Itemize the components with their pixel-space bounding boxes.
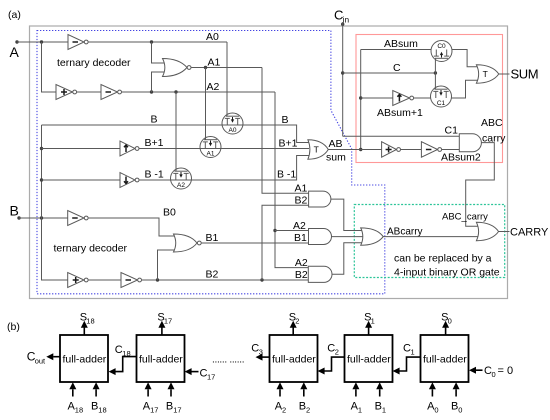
svg-text:B+1: B+1 [145, 137, 164, 149]
wire CARRY output [499, 231, 510, 233]
wire A17 input arrow [147, 389, 149, 396]
wire B2 input arrow [303, 389, 305, 396]
wire ABsum [361, 49, 431, 51]
svg-text:B: B [166, 401, 173, 413]
junction A2 to NOR [150, 90, 153, 93]
wire C1 from Cin to ABC AND [343, 135, 460, 137]
svg-text:A0: A0 [229, 127, 237, 134]
pass transistor C0 (flipped) [431, 41, 452, 74]
svg-text:ABC_carry: ABC_carry [442, 212, 488, 223]
wire S2 output arrow [292, 327, 294, 335]
svg-text:(a): (a) [8, 9, 21, 21]
junction A0 to NOR [150, 40, 153, 43]
svg-text:1: 1 [382, 406, 386, 415]
buffer up ABsum+1 [393, 91, 410, 106]
AND gate A1B2 [309, 191, 331, 207]
wire B2 rail up to AND A1B2 [262, 205, 309, 280]
inverter "-" A row2 [101, 85, 118, 100]
svg-text:B+1: B+1 [279, 138, 298, 150]
wire C0 = 0 input arrow into FA0 [476, 369, 483, 371]
junction B2 to rail up [260, 278, 263, 281]
full-adder box FA17 [137, 335, 185, 382]
wire ABcarry to CARRY OR gate [383, 236, 481, 238]
svg-text:= 0: = 0 [498, 365, 514, 377]
pass transistor A2 [171, 92, 192, 189]
svg-text:...... ......: ...... ...... [212, 354, 244, 365]
wire A2 branch to AND A2B1 [275, 230, 309, 232]
svg-text:C: C [393, 62, 401, 74]
svg-text:AB: AB [329, 138, 343, 150]
wire Cin vertical [342, 22, 344, 136]
svg-text:ABsum2: ABsum2 [441, 152, 481, 164]
wire B input [19, 217, 68, 219]
wire S0 output arrow [445, 327, 447, 335]
svg-text:B1: B1 [294, 232, 307, 244]
svg-text:B1: B1 [206, 232, 219, 244]
svg-text:C1: C1 [437, 100, 446, 107]
svg-text:A2: A2 [207, 81, 220, 93]
wire C1 output to T gate [451, 80, 479, 98]
svg-text:17: 17 [164, 317, 172, 326]
wire A1 input arrow [355, 389, 357, 396]
svg-text:B: B [451, 401, 458, 413]
svg-text:2: 2 [295, 317, 299, 326]
AND gate A2B2 [308, 266, 332, 282]
wire C1 carry jog FA0 to FA1 [400, 357, 421, 371]
pass transistor C1 [431, 73, 452, 107]
svg-text:B -1: B -1 [145, 169, 164, 181]
NOR gate U-A1 [163, 59, 188, 77]
wire B-1 row left [42, 179, 121, 181]
svg-text:C1: C1 [445, 125, 459, 137]
wire C0 output to T gate [452, 50, 479, 67]
wire NOR-B bottom input stub [158, 250, 180, 280]
svg-text:ABsum+1: ABsum+1 [377, 107, 423, 119]
svg-text:A2: A2 [293, 220, 306, 232]
svg-text:T: T [314, 145, 319, 155]
wire A0 input arrow [431, 389, 433, 396]
svg-text:A2: A2 [295, 257, 308, 269]
buffer "+" B row2 [68, 273, 84, 288]
node A terminal dot [15, 40, 18, 43]
svg-text:2: 2 [306, 406, 310, 415]
svg-text:can be replaced by a: can be replaced by a [394, 253, 492, 265]
wire ABsum rail [360, 50, 362, 150]
wire ABsum+1 row left [361, 97, 393, 99]
svg-text:sum: sum [326, 152, 346, 164]
svg-text:full-adder: full-adder [272, 354, 316, 366]
junction rail to ABsum2 row [359, 148, 362, 151]
green dashed region boundary (carry OR) [354, 205, 504, 278]
svg-text:ternary decoder: ternary decoder [57, 57, 131, 69]
svg-text:18: 18 [122, 349, 130, 358]
wire A1 [191, 67, 262, 69]
svg-text:1: 1 [411, 347, 415, 356]
svg-text:1: 1 [371, 317, 375, 326]
wire A2 [122, 91, 275, 93]
wire A2 rail down with branch ends [275, 92, 308, 268]
pass transistor A1 [200, 137, 221, 158]
svg-text:B -1: B -1 [277, 169, 296, 181]
full-adder box FA0 [421, 335, 469, 382]
full-adder box FA18 [60, 335, 108, 382]
wire B2 [142, 279, 309, 281]
NOR gate U-B1 [174, 234, 198, 252]
svg-text:B: B [375, 401, 382, 413]
pass transistor A0 [222, 113, 243, 134]
svg-text:B: B [10, 203, 19, 219]
wire ABC AND output to CARRY OR [466, 143, 495, 227]
wire AND A2B1 output to OR [332, 236, 365, 238]
inverter "-" ABsum2 [421, 142, 437, 158]
svg-text:ABsum: ABsum [384, 38, 418, 50]
svg-text:B2: B2 [295, 195, 308, 207]
wire B0 input arrow [455, 389, 457, 396]
svg-text:B: B [282, 114, 289, 126]
wire A2 input arrow [279, 389, 281, 396]
T gate AB sum [308, 140, 328, 159]
red region boundary (sum stage) [356, 35, 503, 163]
AND gate ABC carry [459, 134, 481, 152]
svg-text:A: A [10, 44, 20, 60]
svg-text:A0: A0 [206, 31, 219, 43]
svg-text:1: 1 [358, 406, 362, 415]
svg-text:18: 18 [98, 406, 106, 415]
svg-text:2: 2 [282, 406, 286, 415]
junction B-1 branch [40, 178, 43, 181]
blue dotted region boundary (ternary decoders + mux) [37, 31, 385, 294]
wire A1 rail down to AND A1B2 [262, 68, 309, 194]
wire A18 input arrow [72, 389, 74, 396]
svg-text:0: 0 [492, 370, 496, 379]
wire C2 carry jog FA1 to FA2 [325, 357, 345, 371]
junction A2 to pass transistor A2 gate [174, 90, 177, 93]
svg-text:17: 17 [150, 406, 158, 415]
wire Cout arrow [53, 356, 60, 358]
svg-text:ABcarry: ABcarry [387, 226, 423, 237]
junction B input to vertical [40, 216, 43, 219]
svg-text:T: T [483, 69, 488, 79]
wire between + and - (B) [88, 279, 121, 281]
svg-text:B2: B2 [206, 269, 219, 281]
wire B1 input arrow [379, 389, 381, 396]
wire B+1 row left [42, 148, 121, 150]
wire B-1 to T gate [139, 156, 309, 181]
buffer "+" ABsum2 [382, 142, 397, 158]
svg-text:B: B [299, 401, 306, 413]
wire ABsum2 to ABC AND [442, 149, 460, 151]
full-adder box FA2 [270, 335, 318, 382]
inverter "-" B row1 [68, 211, 84, 226]
svg-text:(b): (b) [7, 321, 20, 333]
svg-text:17: 17 [173, 406, 181, 415]
wire SUM output [499, 73, 510, 75]
buffer up B+1 [120, 141, 135, 156]
node Cin terminal dot [341, 23, 344, 26]
svg-text:out: out [35, 356, 46, 365]
svg-text:ternary decoder: ternary decoder [54, 243, 128, 255]
junction rail to ABsum+1 [359, 96, 362, 99]
svg-text:CARRY: CARRY [510, 227, 549, 239]
wire S1 output arrow [368, 327, 370, 335]
junction Cin to C wire [341, 71, 344, 74]
full-adder box FA1 [345, 335, 393, 382]
wire AND A1B2 output to OR [331, 199, 363, 230]
junction A2 rail to AND A2B1 [273, 229, 276, 232]
junction C to transistor gates [434, 71, 437, 74]
svg-text:full-adder: full-adder [139, 354, 183, 366]
svg-text:0: 0 [434, 406, 438, 415]
wire NOR-A bottom input stub [152, 72, 169, 92]
svg-text:full-adder: full-adder [63, 354, 107, 366]
junction A to lower decoder row [40, 40, 43, 43]
svg-text:18: 18 [86, 317, 94, 326]
wire A vertical branch [42, 42, 57, 92]
AND gate A2B1 [309, 229, 332, 245]
wire ABsum2 row: + then - [328, 149, 381, 151]
svg-text:B: B [91, 401, 98, 413]
wire AND A2B2 output to OR [332, 243, 363, 275]
wire A0 [88, 41, 227, 43]
svg-text:18: 18 [75, 406, 83, 415]
wire C [343, 72, 436, 74]
wire B1 [201, 242, 308, 244]
svg-text:B: B [151, 114, 158, 126]
node B terminal dot [17, 216, 20, 219]
wire A input [17, 41, 68, 43]
wire B+1 to T gate [139, 148, 309, 150]
svg-text:A1: A1 [295, 183, 308, 195]
wire B vertical bus [42, 125, 68, 280]
svg-text:2: 2 [335, 347, 339, 356]
wire NOR-A top input stub [152, 42, 169, 63]
wire A0 down to pass transistor A0 gate [226, 42, 228, 116]
svg-text:full-adder: full-adder [347, 354, 391, 366]
svg-text:A1: A1 [207, 150, 215, 157]
svg-text:B2: B2 [295, 269, 308, 281]
wire C3 output arrow from FA2 [263, 356, 270, 358]
wire B18 input arrow [95, 389, 97, 396]
wire S18 output arrow [83, 327, 85, 335]
inverter "-" A row1 [68, 35, 84, 50]
svg-text:B0: B0 [163, 207, 176, 219]
junction B+1 branch [40, 147, 43, 150]
wire between + and - (ABsum2) [401, 149, 422, 151]
wire ABsum+1 to C1 transistor [414, 97, 431, 99]
wire B17 input arrow [170, 389, 172, 396]
wire A1 gate lead [205, 68, 207, 140]
wire B row to T gate [42, 125, 310, 143]
svg-text:full-adder: full-adder [423, 354, 467, 366]
wire S17 output arrow [161, 327, 163, 335]
OR gate CARRY output [476, 222, 498, 240]
svg-text:A2: A2 [177, 182, 185, 189]
svg-text:0: 0 [448, 317, 452, 326]
wire B0 [88, 218, 179, 236]
junction B2 to NOR-B [156, 278, 159, 281]
wire C18 carry jog FA17 to FA18 [116, 357, 137, 372]
OR gate ABcarry [361, 228, 384, 245]
svg-text:A1: A1 [208, 57, 221, 69]
svg-text:3: 3 [259, 347, 263, 356]
wire between + and - [77, 91, 101, 93]
wire C17 input arrow into FA17 [192, 371, 199, 373]
inverter "-" B row2 [121, 273, 138, 288]
T gate SUM [476, 65, 498, 83]
junction A1 to pass transistor A1 gate [204, 66, 207, 69]
svg-text:C0: C0 [437, 43, 446, 50]
outer gray frame of full adder cell [30, 26, 508, 299]
buffer down B-1 [120, 173, 135, 188]
svg-text:SUM: SUM [511, 67, 539, 82]
svg-text:4-input binary OR gate: 4-input binary OR gate [394, 267, 500, 279]
svg-text:0: 0 [458, 406, 462, 415]
svg-text:ABC: ABC [481, 117, 503, 129]
svg-text:17: 17 [207, 372, 215, 381]
buffer "+" A row2 [56, 85, 73, 100]
